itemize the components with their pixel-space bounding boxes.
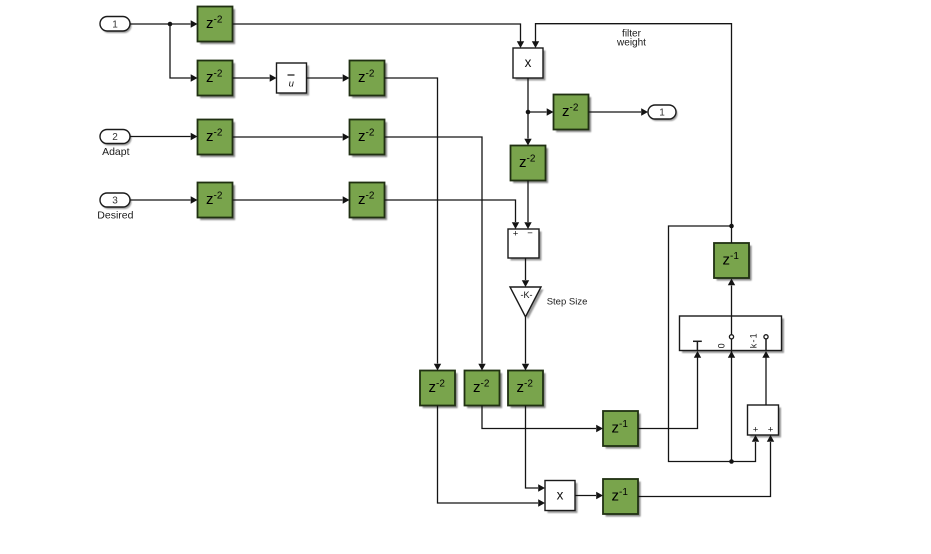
svg-text:Desired: Desired xyxy=(97,209,133,221)
svg-text:x: x xyxy=(525,55,532,70)
svg-text:+: + xyxy=(768,424,774,435)
svg-text:-K-: -K- xyxy=(521,290,533,300)
svg-text:+: + xyxy=(753,424,759,435)
svg-text:3: 3 xyxy=(112,196,118,207)
svg-text:−: − xyxy=(527,228,533,239)
svg-text:u: u xyxy=(289,79,295,90)
svg-text:0: 0 xyxy=(716,343,726,348)
svg-text:k-1: k-1 xyxy=(749,332,759,348)
svg-text:weight: weight xyxy=(616,38,646,49)
svg-text:2: 2 xyxy=(112,132,118,143)
svg-text:x: x xyxy=(557,487,564,502)
svg-text:1: 1 xyxy=(659,108,665,119)
svg-text:1: 1 xyxy=(112,19,118,30)
svg-text:Adapt: Adapt xyxy=(102,146,130,158)
svg-text:Step Size: Step Size xyxy=(547,296,588,307)
svg-text:+: + xyxy=(513,228,519,239)
